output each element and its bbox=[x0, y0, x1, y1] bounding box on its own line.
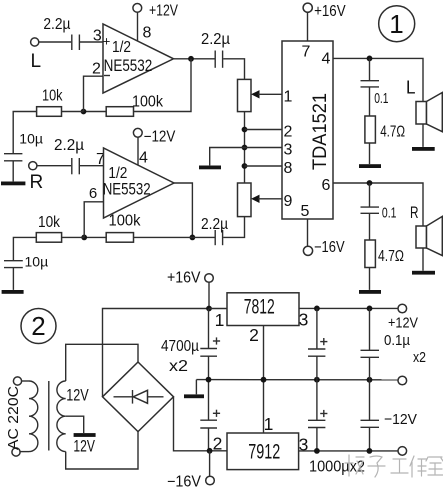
svg-text:10µ: 10µ bbox=[19, 131, 43, 147]
wire TDA pin7 to +16V bbox=[307, 12, 309, 41]
capacitor C8 0.1 bbox=[361, 205, 397, 222]
svg-text:100k: 100k bbox=[109, 213, 141, 230]
node 1000u top bbox=[314, 306, 320, 312]
svg-text:+16V: +16V bbox=[314, 3, 346, 20]
bridge rectifier bbox=[103, 362, 174, 432]
svg-text:−12V: −12V bbox=[144, 128, 176, 145]
svg-text:TDA1521: TDA1521 bbox=[310, 93, 331, 170]
svg-text:x2: x2 bbox=[169, 358, 188, 375]
ground (zobel L) bbox=[359, 164, 381, 168]
svg-text:12V: 12V bbox=[73, 437, 95, 456]
regulator U4 7912 bbox=[213, 414, 309, 470]
svg-text:10µ: 10µ bbox=[25, 254, 49, 270]
op-amp U1A 1/2 NE5532 bbox=[103, 24, 174, 93]
wire node to C8 bbox=[369, 183, 371, 207]
wire TDA pin4 output row bbox=[333, 58, 423, 101]
wire speaker R to ground bbox=[422, 248, 424, 271]
wire node to TDA pin3 bbox=[245, 147, 283, 149]
regulator U3 7812 bbox=[215, 293, 309, 345]
svg-text:2.2µ: 2.2µ bbox=[201, 31, 230, 48]
node B (U1B inverting) bbox=[81, 235, 87, 241]
input terminal L bbox=[31, 38, 42, 72]
wire C3 to RP1 top bbox=[223, 59, 244, 80]
wire center tap bbox=[66, 416, 84, 433]
node rail 1000u bbox=[314, 377, 320, 383]
svg-text:12V: 12V bbox=[66, 385, 89, 404]
node pin4 out bbox=[367, 56, 373, 62]
node 0.1u top bbox=[367, 306, 373, 312]
svg-text:0.1: 0.1 bbox=[382, 205, 397, 222]
wire 10k to node B bbox=[62, 236, 85, 238]
svg-text:L: L bbox=[406, 78, 416, 98]
op-amp U1B 1/2 NE5532 bbox=[103, 148, 174, 218]
wire U1B feedback row bbox=[134, 236, 193, 238]
wire secondary bottom to bridge bbox=[66, 432, 138, 469]
capacitor C1 2.2u bbox=[43, 16, 79, 50]
capacitor C4 2.2u bbox=[201, 216, 228, 245]
wire C4 to RP2 bottom bbox=[223, 217, 244, 238]
wire AC bottom to primary bbox=[20, 451, 29, 453]
AC terminal top bbox=[13, 377, 21, 385]
section marker 1 bbox=[379, 6, 415, 42]
wiper arrow RP2 to pin 9 bbox=[251, 195, 282, 203]
ground (C5) bbox=[1, 182, 25, 186]
svg-text:AC 220C: AC 220C bbox=[5, 386, 22, 450]
ground (speaker R) bbox=[412, 271, 435, 275]
power terminal +16V (PSU) bbox=[167, 269, 213, 286]
node rail reg bbox=[261, 377, 267, 383]
svg-text:7812: 7812 bbox=[244, 296, 275, 319]
svg-text:−16V: −16V bbox=[314, 239, 345, 256]
svg-text:6: 6 bbox=[322, 177, 331, 194]
svg-text:4: 4 bbox=[139, 150, 148, 167]
node 7912 input bbox=[207, 448, 213, 454]
svg-text:1: 1 bbox=[284, 88, 293, 105]
ground rail mid bbox=[196, 379, 398, 381]
svg-text:9: 9 bbox=[284, 193, 293, 210]
svg-text:R: R bbox=[410, 204, 419, 222]
svg-text:2.2µ: 2.2µ bbox=[201, 216, 228, 233]
svg-text:−12V: −12V bbox=[384, 411, 417, 428]
ground (C6) bbox=[2, 290, 24, 294]
wire C6 to ground bbox=[12, 268, 14, 290]
svg-text:3: 3 bbox=[284, 142, 293, 159]
wire 10k left down to C6 bbox=[13, 237, 36, 260]
svg-text:+12V: +12V bbox=[388, 315, 418, 332]
capacitor C6 10u bbox=[4, 254, 48, 270]
power terminal -12V bbox=[133, 128, 176, 145]
resistor 10k (R) bbox=[36, 214, 61, 242]
wire node to -16V bbox=[209, 451, 211, 477]
svg-text:+16V: +16V bbox=[167, 269, 201, 286]
input terminal R bbox=[29, 162, 44, 193]
potentiometer RP1 bbox=[238, 79, 252, 111]
svg-text:2: 2 bbox=[92, 61, 101, 78]
power terminal -16V (TDA) bbox=[303, 239, 345, 256]
svg-text:7: 7 bbox=[302, 44, 311, 61]
wire U1B pin4 to -12V bbox=[138, 137, 148, 167]
ground (PSU) bbox=[184, 394, 204, 398]
wire node to C7 bbox=[369, 58, 371, 80]
power terminal -16V (PSU) bbox=[167, 474, 214, 491]
node rail 0.1u bbox=[367, 377, 373, 383]
svg-text:4.7Ω: 4.7Ω bbox=[380, 123, 405, 140]
capacitor C5 10u bbox=[4, 131, 43, 161]
transformer T1 secondary winding bbox=[57, 381, 66, 452]
capacitor C7 0.1 bbox=[361, 81, 389, 107]
ground (speaker L) bbox=[412, 147, 435, 151]
node pin8 bbox=[242, 163, 248, 169]
ground (signal) bbox=[199, 166, 221, 170]
svg-text:2: 2 bbox=[31, 311, 45, 341]
svg-text:10k: 10k bbox=[42, 88, 63, 105]
wire 100k to node B bbox=[84, 236, 106, 238]
speaker L bbox=[406, 78, 442, 132]
speaker R bbox=[410, 204, 442, 256]
svg-text:2: 2 bbox=[284, 124, 293, 141]
wire 100k to node A bbox=[84, 111, 107, 113]
svg-text:6: 6 bbox=[89, 185, 97, 202]
svg-text:1/2: 1/2 bbox=[112, 39, 131, 56]
capacitor 4700u bottom bbox=[200, 380, 220, 451]
svg-text:8: 8 bbox=[284, 160, 293, 177]
svg-text:4.7Ω: 4.7Ω bbox=[378, 248, 404, 265]
power amp U2 TDA1521 bbox=[282, 41, 333, 220]
wire C7 to R3 bbox=[369, 87, 371, 116]
wire R4 to ground bbox=[369, 268, 371, 290]
wire L input to C1 bbox=[39, 41, 71, 43]
node pin2 bbox=[242, 127, 248, 133]
wire U1A feedback drop bbox=[134, 59, 192, 112]
node 0.1u bottom bbox=[367, 448, 373, 454]
svg-text:7912: 7912 bbox=[248, 441, 280, 464]
power terminal +16V (TDA) bbox=[303, 3, 346, 20]
svg-text:5: 5 bbox=[301, 203, 310, 220]
ground (zobel R) bbox=[359, 290, 381, 294]
svg-text:1: 1 bbox=[264, 414, 274, 434]
node 1000u bottom bbox=[314, 448, 320, 454]
wire R3 to ground bbox=[369, 143, 371, 164]
svg-text:L: L bbox=[31, 51, 42, 72]
wire U1A output bbox=[174, 58, 216, 60]
svg-text:4700µ: 4700µ bbox=[161, 338, 199, 355]
wire node to 7812 pin1 bbox=[209, 308, 227, 310]
AC terminal bottom bbox=[12, 448, 20, 456]
node +16V rail bbox=[206, 306, 212, 312]
svg-text:100k: 100k bbox=[132, 94, 163, 111]
svg-text:R: R bbox=[30, 172, 44, 193]
wire node B to U1B pin6 bbox=[84, 185, 103, 237]
svg-text:0.1: 0.1 bbox=[374, 90, 388, 107]
wire rail to ground bbox=[195, 380, 197, 395]
svg-text:+: + bbox=[103, 34, 111, 49]
svg-text:3: 3 bbox=[299, 310, 309, 330]
node pin6 out bbox=[367, 180, 373, 186]
capacitor C3 2.2u bbox=[201, 31, 230, 68]
wire C2 to U1B pin7 bbox=[80, 151, 105, 168]
wire AC top to primary bbox=[22, 380, 29, 382]
wire RP1 bottom to RP2 top bbox=[244, 112, 246, 183]
wire 10k to node A bbox=[62, 111, 84, 113]
capacitor 0.1u bottom bbox=[361, 380, 380, 451]
wire TDA pin6 output row bbox=[333, 183, 423, 226]
svg-text:NE5532: NE5532 bbox=[104, 56, 153, 75]
svg-text:+12V: +12V bbox=[149, 3, 179, 20]
capacitor 4700u top bbox=[161, 309, 220, 380]
wire U1A pin8 to +12V bbox=[138, 12, 152, 42]
node U1B out bbox=[190, 235, 196, 241]
output terminal +12V bbox=[384, 304, 426, 366]
output terminal -12V bbox=[384, 411, 417, 455]
wire bridge - to -16V row bbox=[174, 397, 228, 451]
capacitor C2 2.2u bbox=[54, 137, 84, 174]
svg-text:x2: x2 bbox=[413, 349, 426, 366]
wire 7912 pin3 output row bbox=[299, 450, 398, 452]
svg-text:−16V: −16V bbox=[167, 474, 202, 491]
svg-text:3: 3 bbox=[93, 28, 102, 45]
svg-text:0.1µ: 0.1µ bbox=[384, 332, 410, 349]
wire node to TDA pin2 bbox=[245, 129, 283, 131]
svg-text:8: 8 bbox=[143, 25, 152, 42]
wire node to TDA pin8 bbox=[245, 165, 283, 167]
wire C1 to U1A pin3 bbox=[80, 28, 103, 45]
transformer T1 primary winding bbox=[29, 381, 38, 452]
wire R input to C2 bbox=[37, 165, 71, 167]
power terminal +12V bbox=[133, 3, 179, 20]
wire node pin3 to ground bbox=[210, 148, 245, 166]
wire node to C4 bbox=[192, 236, 215, 238]
wire secondary top to bridge bbox=[66, 344, 138, 381]
output terminal GND bbox=[398, 376, 407, 385]
capacitor 1000u bottom bbox=[308, 380, 327, 451]
wire speaker L to ground bbox=[422, 124, 424, 147]
svg-text:2.2µ: 2.2µ bbox=[43, 16, 70, 33]
resistor 100k (U1A feedback) bbox=[106, 94, 163, 117]
wire +16V to node bbox=[208, 282, 210, 308]
wire 7812 pin2 down bbox=[263, 326, 265, 434]
svg-text:2.2µ: 2.2µ bbox=[54, 137, 84, 154]
capacitor 0.1u top bbox=[361, 308, 380, 379]
resistor R4 4.7ohm bbox=[365, 240, 404, 268]
svg-text:1: 1 bbox=[389, 9, 403, 39]
node A (U1A inverting) bbox=[81, 109, 87, 115]
wire node A to U1A pin2 bbox=[84, 61, 104, 112]
resistor 10k (L) bbox=[37, 88, 63, 117]
svg-text:2: 2 bbox=[213, 434, 223, 454]
resistor 100k (U1B feedback) bbox=[106, 213, 141, 243]
svg-text:10k: 10k bbox=[38, 214, 60, 231]
resistor R3 4.7ohm bbox=[365, 116, 405, 143]
wiper arrow RP1 to pin 1 bbox=[251, 90, 282, 98]
wire bridge + to +16V node bbox=[103, 309, 210, 397]
svg-text:1: 1 bbox=[215, 310, 225, 330]
svg-text:NE5532: NE5532 bbox=[103, 180, 151, 199]
svg-text:4: 4 bbox=[322, 50, 331, 67]
wire 7812 pin3 output row bbox=[299, 307, 398, 309]
watermark studio seal bbox=[345, 455, 443, 477]
wire TDA pin5 to -16V bbox=[307, 219, 309, 246]
svg-text:2: 2 bbox=[249, 325, 259, 345]
node U1A out bbox=[188, 56, 194, 62]
wire 10k left down to C5 bbox=[13, 112, 36, 154]
ground (center tap) bbox=[74, 433, 96, 437]
wire C8 to R4 bbox=[369, 214, 371, 241]
capacitor 1000u top bbox=[308, 308, 327, 379]
section marker 2 bbox=[21, 309, 56, 344]
node rail 4700u bbox=[206, 377, 212, 383]
node pin3 bbox=[242, 145, 248, 151]
transformer core bbox=[48, 381, 50, 451]
wire U1B output bbox=[174, 183, 192, 237]
potentiometer RP2 bbox=[238, 183, 252, 217]
wire C5 to ground bbox=[12, 161, 14, 181]
